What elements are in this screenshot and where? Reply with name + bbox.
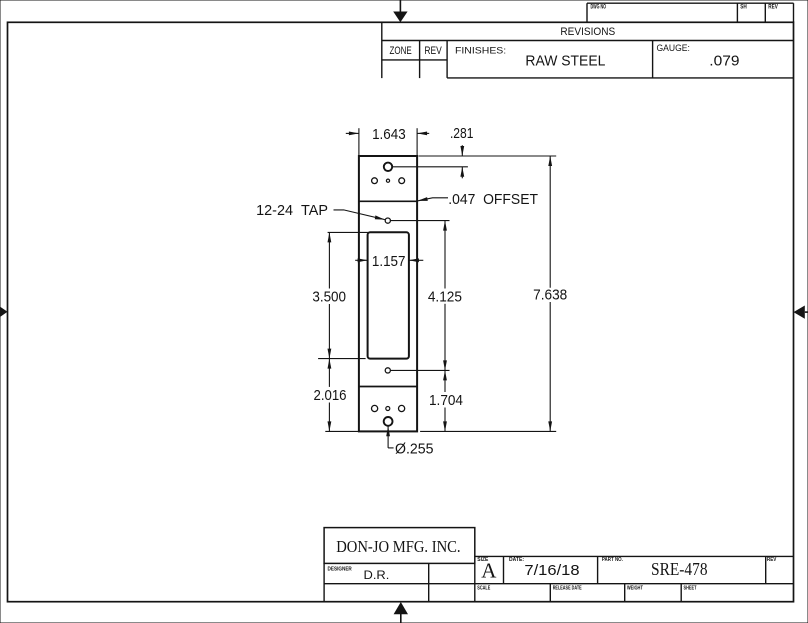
svg-text:SH: SH: [740, 4, 747, 10]
svg-text:12-24 TAP: 12-24 TAP: [256, 202, 328, 219]
svg-text:ZONE: ZONE: [389, 45, 411, 57]
svg-text:REV: REV: [768, 4, 778, 10]
svg-text:SCALE: SCALE: [477, 586, 490, 592]
dimension 7.638: [533, 156, 567, 431]
left border tick arrow: [0, 307, 8, 317]
extension line right of 1.643: [416, 128, 418, 155]
svg-text:RELEASE DATE: RELEASE DATE: [553, 586, 582, 592]
svg-text:Ø.255: Ø.255: [395, 440, 434, 457]
svg-text:2.016: 2.016: [314, 387, 347, 404]
svg-text:FINISHES:: FINISHES:: [455, 45, 506, 55]
lower 12-24 tap hole: [385, 368, 390, 373]
extension line plate bottom right: [420, 430, 556, 432]
svg-text:7.638: 7.638: [533, 287, 567, 304]
top countersunk hole: [384, 163, 392, 171]
dimension 1.704: [429, 370, 463, 431]
svg-text:DATE:: DATE:: [509, 557, 524, 563]
bottom small hole middle: [386, 407, 390, 411]
strike plate outline: [359, 156, 417, 431]
svg-text:.079: .079: [709, 52, 739, 69]
svg-text:DON-JO MFG. INC.: DON-JO MFG. INC.: [336, 537, 460, 556]
top strip dwg-no box: [587, 3, 794, 22]
svg-text:WEIGHT: WEIGHT: [627, 586, 643, 592]
diameter .255 note and leader: [386, 426, 433, 457]
12-24 TAP note and leader: [256, 202, 385, 220]
dimension 4.125: [428, 221, 462, 371]
svg-text:4.125: 4.125: [428, 288, 462, 305]
top small hole middle: [386, 179, 389, 182]
extension line plate bottom left: [325, 430, 359, 432]
plate lower bend line: [359, 386, 417, 388]
upper 12-24 tap hole: [385, 218, 390, 223]
extension line upper tap hole: [390, 220, 449, 222]
dimension 3.500: [312, 232, 346, 358]
top small hole left: [372, 178, 378, 184]
svg-text:DESIGNER: DESIGNER: [328, 566, 352, 572]
extension line lower tap hole: [390, 369, 449, 371]
extension line left of 1.643: [358, 128, 360, 155]
svg-text:1.157: 1.157: [372, 253, 406, 270]
.047 OFFSET note and leader: [417, 191, 538, 208]
revisions table lines: [382, 22, 794, 78]
svg-text:DWG NO: DWG NO: [591, 4, 607, 10]
bottom countersunk hole: [384, 417, 393, 426]
svg-text:REV: REV: [424, 45, 442, 57]
svg-text:D.R.: D.R.: [364, 568, 390, 582]
latch opening cutout: [368, 232, 409, 358]
svg-text:7/16/18: 7/16/18: [524, 562, 579, 579]
bottom small hole left: [372, 405, 378, 411]
svg-text:GAUGE:: GAUGE:: [657, 43, 690, 53]
svg-text:1.704: 1.704: [429, 392, 463, 409]
extension line opening top: [328, 231, 368, 233]
extension line plate top edge: [419, 155, 557, 157]
dimension 1.643: [346, 126, 429, 143]
right border tick arrow: [794, 306, 808, 319]
svg-text:A: A: [481, 559, 497, 583]
bottom border tick arrow: [394, 602, 408, 623]
extension line top hole center: [392, 166, 468, 168]
dimension .281: [450, 125, 474, 178]
title block lines: [324, 528, 793, 602]
svg-text:SHEET: SHEET: [684, 586, 697, 592]
bottom small hole right: [399, 405, 405, 411]
svg-text:1.643: 1.643: [372, 126, 406, 143]
top border tick arrow: [393, 0, 407, 22]
dimension 2.016: [314, 359, 347, 432]
dimension 1.157: [355, 253, 423, 270]
svg-text:REVISIONS: REVISIONS: [560, 26, 615, 38]
svg-text:.047 OFFSET: .047 OFFSET: [448, 191, 538, 208]
plate upper bend line: [359, 200, 417, 202]
svg-text:RAW STEEL: RAW STEEL: [525, 53, 605, 70]
svg-text:SRE-478: SRE-478: [651, 559, 708, 579]
svg-text:REV: REV: [767, 557, 777, 563]
top small hole right: [399, 178, 405, 184]
svg-text:3.500: 3.500: [312, 289, 346, 306]
svg-text:PART NO.: PART NO.: [602, 557, 623, 563]
extension line opening bottom: [318, 358, 366, 360]
svg-text:.281: .281: [450, 125, 474, 142]
